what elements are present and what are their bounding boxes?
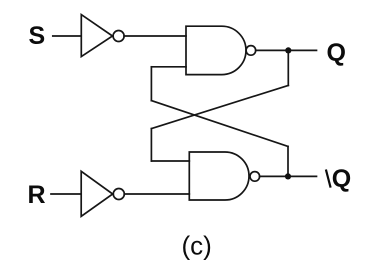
svg-text:Q: Q bbox=[332, 165, 351, 193]
wire Q output bbox=[256, 49, 317, 51]
inverter U1 (S input) triangle bbox=[81, 15, 112, 57]
svg-text:Q: Q bbox=[327, 39, 346, 67]
wire R input bbox=[51, 193, 81, 195]
inverter U1 bubble bbox=[113, 31, 124, 42]
wire feedback left vertical (lower) bbox=[150, 129, 152, 161]
wire S input bbox=[53, 35, 81, 37]
svg-text:R: R bbox=[28, 181, 46, 209]
wire \Q feedback diagonal to right bbox=[151, 101, 288, 147]
svg-text:S: S bbox=[29, 22, 46, 50]
wire \Q feedback vertical drop bbox=[287, 146, 289, 176]
NAND U2 output bubble bbox=[246, 46, 256, 56]
wire U1 output to top NAND input A bbox=[124, 35, 186, 37]
NAND U4 output bubble bbox=[250, 172, 260, 182]
wire U3 output to bottom NAND input B bbox=[124, 193, 189, 195]
label \Q backslash bbox=[326, 170, 331, 188]
NAND gate U4 (bottom) body bbox=[189, 152, 249, 200]
junction dot at Q node bbox=[285, 47, 291, 53]
wire Q feedback vertical drop bbox=[287, 50, 289, 85]
junction dot at \Q node bbox=[285, 173, 291, 179]
svg-text:(c): (c) bbox=[182, 231, 212, 261]
inverter U3 (R input) triangle bbox=[81, 171, 113, 216]
wire Q feedback diagonal to left bbox=[151, 85, 288, 128]
wire \Q output bbox=[260, 175, 317, 177]
NAND gate U2 (top) body bbox=[186, 26, 246, 74]
wire feedback left vertical (upper) bbox=[150, 67, 152, 101]
wire into bottom NAND input A bbox=[151, 160, 189, 162]
wire feedback into top NAND input B bbox=[151, 66, 186, 68]
inverter U3 bubble bbox=[113, 189, 124, 200]
